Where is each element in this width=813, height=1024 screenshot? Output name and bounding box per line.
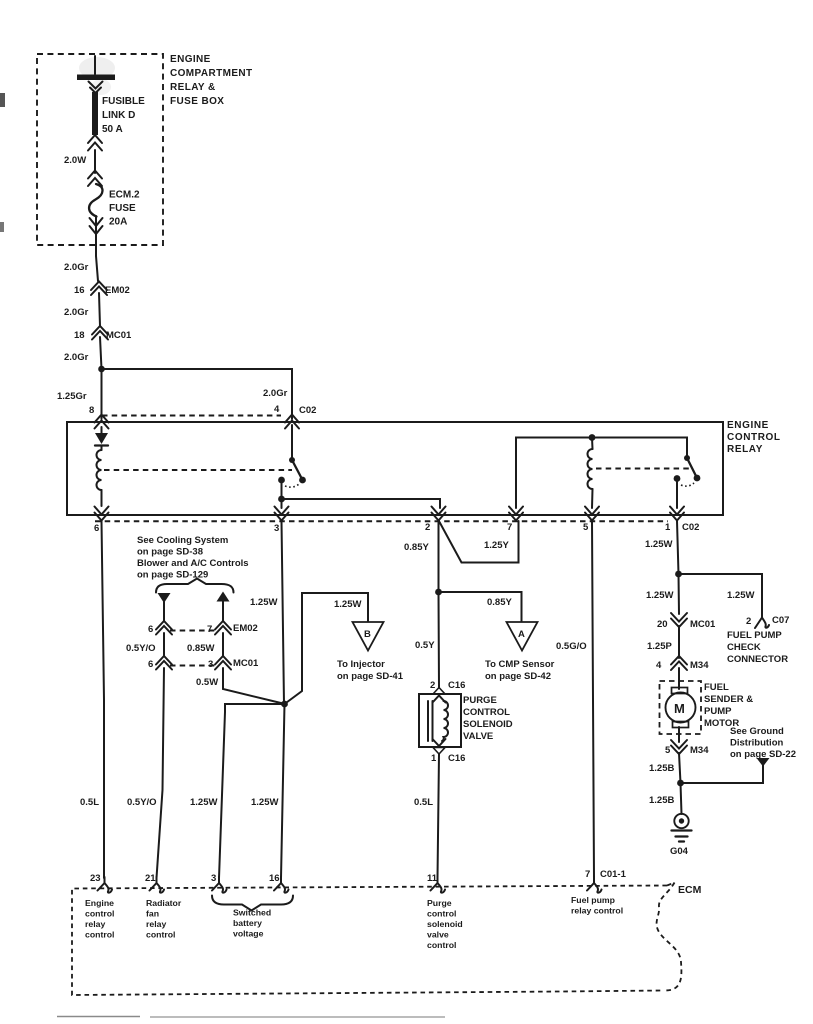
label 0.5W [196, 677, 218, 688]
label pin 1 C16 [431, 753, 437, 764]
motor M1 (circle with M) [666, 693, 696, 723]
svg-text:EM02: EM02 [105, 285, 130, 296]
label pin 16 [269, 873, 280, 884]
label 18 [74, 330, 85, 341]
svg-text:1.25P: 1.25P [647, 641, 672, 652]
label pin 11 [427, 873, 438, 884]
svg-text:control: control [85, 930, 114, 940]
svg-text:5: 5 [665, 745, 671, 756]
wire branch to CMP sensor [439, 592, 522, 621]
svg-text:23: 23 [90, 873, 101, 884]
label C02 (top) [299, 405, 316, 416]
right switch pivot [684, 455, 690, 461]
right switch moving contact [694, 475, 701, 482]
label 2.0Gr (mid) [64, 307, 89, 318]
svg-text:18: 18 [74, 330, 85, 341]
label C16 (top) [448, 680, 465, 691]
label 1.25P [647, 641, 672, 652]
svg-text:on page SD-41: on page SD-41 [337, 671, 404, 682]
note To CMP Sensor [485, 659, 555, 682]
wire relay pin 1 down (1.25W) [677, 521, 679, 574]
svg-text:SOLENOID: SOLENOID [463, 719, 513, 730]
connector 20 MC01 (in-line chevrons down) [671, 613, 687, 627]
junction node above relay [98, 366, 105, 373]
fuse ECM.2 20A (s-curve symbol) [89, 184, 102, 217]
svg-text:4: 4 [274, 404, 280, 415]
label 4 (M34) [656, 660, 662, 671]
svg-text:relay control: relay control [571, 906, 623, 916]
ECM pin 16 connector [274, 877, 289, 893]
wire relay pin 3 down to junction [282, 521, 285, 704]
svg-text:3: 3 [211, 873, 216, 884]
ECM pin 3 connector [212, 877, 227, 893]
svg-text:M: M [674, 701, 685, 716]
svg-text:See Cooling System: See Cooling System [137, 535, 228, 546]
svg-text:0.5Y: 0.5Y [415, 640, 435, 651]
svg-text:FUEL: FUEL [704, 682, 729, 693]
svg-text:B: B [364, 629, 371, 640]
svg-text:To CMP Sensor: To CMP Sensor [485, 659, 555, 670]
wire battery stub [94, 56, 96, 74]
svg-text:G04: G04 [670, 846, 689, 857]
wire fuse to box edge [95, 216, 97, 256]
svg-text:6: 6 [148, 659, 153, 670]
connector row C02 bottom (dashed) [95, 520, 668, 522]
label 0.85W [187, 643, 214, 654]
label 1.25W (check branch) [727, 590, 754, 601]
label G04 [670, 846, 689, 857]
linkage (dashed) left coil to left switch [104, 469, 292, 471]
label ECM.2 FUSE 20A [109, 190, 140, 228]
pin 3 connector chevrons [275, 507, 289, 521]
label PURGE CONTROL SOLENOID VALVE [463, 695, 513, 742]
svg-text:0.5L: 0.5L [414, 797, 433, 808]
wire MC01 to M34 (1.25P) [678, 626, 680, 658]
fusible link D (thick bar) [92, 92, 98, 135]
svg-text:2.0Gr: 2.0Gr [64, 352, 89, 363]
label 1.25B (lower) [649, 795, 674, 806]
label 6 (upper) [148, 624, 153, 635]
scan artifact bottom separator [57, 1016, 445, 1019]
right switch throw arc (dotted) [681, 483, 694, 486]
left switch pivot [289, 457, 295, 463]
label FUSIBLE LINK D 50 A [102, 96, 145, 135]
svg-text:1.25W: 1.25W [190, 797, 217, 808]
svg-text:CHECK: CHECK [727, 642, 761, 653]
svg-text:relay: relay [85, 919, 105, 929]
label 1.25W (injector wire) [334, 599, 361, 610]
svg-text:M34: M34 [690, 660, 709, 671]
label pin 8 [89, 405, 94, 416]
wire relay pin 5 to ECM pin 7 (0.5G/O) [592, 521, 594, 878]
svg-text:FUSE BOX: FUSE BOX [170, 96, 224, 107]
label C16 (bottom) [448, 753, 465, 764]
svg-text:7: 7 [507, 522, 512, 533]
wire engine control relay run (0.5L) [102, 521, 105, 878]
svg-text:0.5G/O: 0.5G/O [556, 641, 587, 652]
wire junction to pin 3 [281, 499, 283, 508]
svg-text:C16: C16 [448, 680, 465, 691]
ECM pin 21 connector [150, 877, 165, 893]
label Radiator fan relay control [146, 898, 182, 940]
pin 7 connector chevrons [509, 507, 523, 521]
wire segment to EM02 [96, 256, 98, 281]
brace switched battery pins [212, 896, 293, 911]
svg-text:6: 6 [94, 523, 99, 534]
svg-text:MC01: MC01 [690, 619, 716, 630]
svg-text:2: 2 [430, 680, 435, 691]
wire radiator stub mid [163, 633, 165, 656]
wire branch junction to pin 4 [102, 369, 293, 419]
pin 5 connector chevrons [585, 507, 599, 521]
label M34 (upper) [690, 660, 709, 671]
svg-text:2: 2 [746, 616, 751, 627]
label 2.0Gr (lower) [64, 352, 89, 363]
svg-text:Blower and A/C Controls: Blower and A/C Controls [137, 558, 249, 569]
svg-text:16: 16 [269, 873, 280, 884]
svg-text:0.5Y/O: 0.5Y/O [127, 797, 157, 808]
svg-text:relay: relay [146, 919, 166, 929]
svg-text:RELAY: RELAY [727, 444, 763, 455]
svg-text:Purge: Purge [427, 898, 452, 908]
connector C16 bottom (chevron + triangle) [433, 739, 446, 754]
label pin 3 (ECM) [211, 873, 216, 884]
wire branch junction to pin 3 ECM [219, 704, 285, 878]
label 0.5Y [415, 640, 435, 651]
note To Injector [337, 659, 404, 682]
label 0.5L (purge wire) [414, 797, 433, 808]
svg-text:M34: M34 [690, 745, 709, 756]
pin 6 connector chevrons [95, 507, 109, 521]
svg-text:control: control [146, 930, 175, 940]
junction node at left switch output [278, 496, 285, 503]
off-page triangle A [507, 622, 538, 651]
label M34 (lower) [690, 745, 709, 756]
label 16 [74, 285, 85, 296]
label ENGINE CONTROL RELAY [727, 420, 781, 455]
label EM02 [233, 623, 258, 634]
svg-text:0.85Y: 0.85Y [404, 542, 429, 553]
svg-text:CONNECTOR: CONNECTOR [727, 654, 788, 665]
wire segment to MC01 [99, 293, 100, 326]
svg-text:0.85W: 0.85W [187, 643, 214, 654]
label 1.25W (pin 1 wire) [645, 539, 672, 550]
label pin 7 C01-1 [585, 869, 627, 880]
svg-text:2.0Gr: 2.0Gr [64, 307, 89, 318]
label pin 6 [94, 523, 99, 534]
wire radiator fan control (0.5Y/O run) [157, 668, 165, 878]
svg-text:1: 1 [431, 753, 437, 764]
label 1.25W (pin 16 wire) [251, 797, 278, 808]
svg-text:1.25B: 1.25B [649, 795, 674, 806]
connector 4 M34 (in-line chevrons up) [671, 656, 687, 670]
ground G04 symbol [672, 814, 692, 842]
label 0.5Y/O (lower) [127, 797, 157, 808]
label 6 (lower) [148, 659, 153, 670]
ECM box (dashed enclosure with wavy right edge) [72, 883, 681, 996]
svg-text:COMPARTMENT: COMPARTMENT [170, 68, 253, 79]
svg-text:C16: C16 [448, 753, 465, 764]
svg-text:ECM.2: ECM.2 [109, 190, 140, 201]
svg-text:0.5Y/O: 0.5Y/O [126, 643, 156, 654]
relay coil (right) [588, 438, 593, 509]
diode inside relay [95, 427, 108, 446]
svg-text:PURGE: PURGE [463, 695, 497, 706]
svg-text:Distribution: Distribution [730, 738, 783, 749]
label pin 5 [583, 522, 589, 533]
label C07 [772, 615, 789, 626]
svg-text:MC01: MC01 [233, 658, 259, 669]
label FUEL PUMP CHECK CONNECTOR [727, 630, 788, 665]
svg-text:ENGINE: ENGINE [170, 54, 211, 65]
label 5 (M34) [665, 745, 671, 756]
svg-text:CONTROL: CONTROL [727, 432, 781, 443]
arrow to radiator fan (solid triangle down) [158, 593, 171, 603]
svg-text:2.0Gr: 2.0Gr [64, 262, 89, 273]
svg-text:0.5L: 0.5L [80, 797, 99, 808]
wire fixed contact to junction [281, 480, 283, 499]
label 1.25W (pin 3 ECM wire) [190, 797, 217, 808]
connector chevrons below fusible link [88, 135, 102, 151]
svg-text:Engine: Engine [85, 898, 114, 908]
label pin 3 [274, 523, 279, 534]
label 20 [657, 619, 668, 630]
ECM pin 11 connector [431, 877, 446, 893]
svg-text:C02: C02 [682, 522, 699, 533]
wire to injector branch [285, 593, 369, 704]
right switch fixed contact [674, 475, 681, 482]
svg-text:FUEL PUMP: FUEL PUMP [727, 630, 782, 641]
svg-text:C02: C02 [299, 405, 316, 416]
purge control solenoid valve box [419, 694, 461, 747]
svg-text:PUMP: PUMP [704, 706, 732, 717]
left switch moving contact [299, 477, 306, 484]
svg-text:8: 8 [89, 405, 94, 416]
svg-text:on page SD-22: on page SD-22 [730, 749, 796, 760]
dashed connector row EM02 [170, 630, 217, 632]
wire branch to check connector [679, 574, 763, 617]
scan smudge near battery bar [79, 57, 115, 95]
label 7 [207, 624, 212, 635]
junction node ground branch [677, 780, 684, 787]
label pin 7 [507, 522, 512, 533]
svg-text:SENDER &: SENDER & [704, 694, 753, 705]
wire 0.5W stub to junction [223, 668, 283, 704]
label 0.5L [80, 797, 99, 808]
svg-text:control: control [85, 909, 114, 919]
note See Cooling System references [137, 535, 249, 581]
connector chevrons below fuse [90, 218, 103, 234]
svg-text:A: A [518, 629, 525, 640]
right switch arm [687, 458, 697, 477]
wire motor to M34 lower [678, 727, 680, 742]
left switch throw arc (dotted) [285, 484, 299, 487]
label 3 [208, 659, 213, 670]
svg-text:7: 7 [585, 869, 590, 880]
connector 2 C07 (half connector) [755, 618, 769, 629]
svg-text:voltage: voltage [233, 929, 264, 939]
arrow from blower controls (solid triangle up) [217, 592, 230, 602]
label 0.5Y/O (upper) [126, 643, 156, 654]
label EM02 [105, 285, 130, 296]
svg-text:Fuel pump: Fuel pump [571, 895, 615, 905]
wire purge valve to ECM pin 11 [438, 754, 440, 878]
label MC01 [106, 330, 132, 341]
wire blower stub mid [222, 633, 224, 656]
svg-text:2: 2 [425, 522, 430, 533]
svg-text:20A: 20A [109, 217, 127, 228]
svg-text:4: 4 [656, 660, 662, 671]
off-page triangle B [353, 622, 384, 651]
connector 6 (upper, radiator stub) [156, 621, 172, 635]
wire blower stub [222, 601, 224, 621]
svg-text:0.85Y: 0.85Y [487, 597, 512, 608]
fuel sender & pump motor (dashed enclosure) [660, 681, 702, 734]
ECM pin 7 connector [587, 877, 602, 893]
wire 0.5Y to purge valve [438, 592, 441, 688]
label 2.0Gr (branch) [263, 388, 288, 399]
svg-text:20: 20 [657, 619, 668, 630]
svg-text:fan: fan [146, 909, 159, 919]
label Fuel pump relay control [571, 895, 623, 916]
svg-text:See Ground: See Ground [730, 726, 784, 737]
left switch arm [292, 460, 302, 479]
relay coil (left) [97, 446, 102, 507]
svg-text:6: 6 [148, 624, 153, 635]
svg-text:50 A: 50 A [102, 124, 123, 135]
connector 16 EM02 (in-line chevrons) [91, 282, 107, 296]
svg-text:CONTROL: CONTROL [463, 707, 510, 718]
label MC01 [233, 658, 259, 669]
label Purge control solenoid valve control [427, 898, 463, 950]
svg-text:Switched: Switched [233, 908, 271, 918]
svg-text:ECM: ECM [678, 884, 702, 896]
linkage (dashed) right coil to right switch [596, 468, 690, 470]
svg-text:16: 16 [74, 285, 85, 296]
label 1.25W (pin 3 wire) [250, 597, 277, 608]
label pin 1 [665, 522, 671, 533]
connector chevrons above fuse [88, 171, 102, 187]
wire 1.25Y jog pin2 area to pin 7 [440, 521, 519, 563]
svg-text:To Injector: To Injector [337, 659, 385, 670]
label 0.85Y (CMP branch) [487, 597, 512, 608]
inner feed rectangle (right relay section) [516, 438, 687, 509]
wire M34 to motor [678, 668, 680, 689]
svg-text:3: 3 [274, 523, 279, 534]
wire junction to pin 8 [101, 369, 103, 419]
connector 18 MC01 (in-line chevrons) [92, 326, 108, 340]
svg-text:2.0W: 2.0W [64, 155, 86, 166]
wire pin 4 to left switch pivot [291, 425, 293, 459]
svg-text:C07: C07 [772, 615, 789, 626]
svg-text:1.25W: 1.25W [334, 599, 361, 610]
left switch fixed contact [278, 477, 285, 484]
svg-text:VALVE: VALVE [463, 731, 493, 742]
scan artifact left edge ticks [0, 93, 5, 232]
wire segment to junction [100, 337, 102, 369]
svg-text:11: 11 [427, 873, 438, 884]
svg-text:2.0Gr: 2.0Gr [263, 388, 288, 399]
svg-text:EM02: EM02 [233, 623, 258, 634]
svg-text:1.25W: 1.25W [727, 590, 754, 601]
svg-text:1: 1 [665, 522, 671, 533]
connector row C02 top (dashed) [102, 415, 281, 417]
wire junction to pin 2 [282, 499, 441, 508]
note See Ground Distribution [730, 726, 796, 760]
junction node switched battery [281, 701, 288, 708]
wire junction to MC01 connector [678, 574, 681, 614]
label 1.25W (lower) [646, 590, 673, 601]
svg-text:battery: battery [233, 918, 262, 928]
svg-text:solenoid: solenoid [427, 919, 463, 929]
wire fixed contact to pin 1 [676, 479, 678, 509]
engine compartment relay & fuse box (dashed enclosure) [37, 54, 163, 245]
label MC01 (fuel pump) [690, 619, 716, 630]
solenoid core lines [428, 701, 433, 741]
label pin 23 [90, 873, 101, 884]
svg-text:1.25Gr: 1.25Gr [57, 391, 87, 402]
label 1.25Gr [57, 391, 87, 402]
svg-text:MC01: MC01 [106, 330, 132, 341]
svg-text:control: control [427, 909, 456, 919]
wire M34 to ground junction (1.25B) [679, 753, 681, 783]
svg-text:C01-1: C01-1 [600, 869, 627, 880]
svg-text:1.25W: 1.25W [250, 597, 277, 608]
svg-text:FUSE: FUSE [109, 203, 136, 214]
ECM pin 23 connector [98, 877, 113, 893]
wire relay pin 2 down (0.85Y) [438, 521, 440, 592]
svg-text:ENGINE: ENGINE [727, 420, 769, 431]
pin 8 connector chevrons [95, 415, 109, 429]
svg-text:1.25W: 1.25W [646, 590, 673, 601]
label Switched battery voltage [233, 908, 271, 939]
pin 4 connector chevrons [285, 415, 299, 429]
brace over cooling stubs [156, 579, 234, 593]
label 2.0W [64, 155, 86, 166]
solenoid coil [442, 701, 448, 741]
label pin 4 [274, 404, 280, 415]
label pin 21 [145, 873, 156, 884]
engine control relay box [67, 422, 723, 515]
connector chevrons below battery bar [89, 82, 103, 94]
svg-text:RELAY &: RELAY & [170, 82, 216, 93]
label pin 2 C16 [430, 680, 435, 691]
connector 7 EM02 (blower stub) [215, 621, 231, 635]
svg-text:1.25W: 1.25W [251, 797, 278, 808]
label FUEL SENDER & PUMP MOTOR [704, 682, 753, 729]
svg-text:1.25W: 1.25W [645, 539, 672, 550]
svg-text:valve: valve [427, 930, 449, 940]
svg-text:FUSIBLE: FUSIBLE [102, 96, 145, 107]
svg-text:Radiator: Radiator [146, 898, 182, 908]
svg-text:21: 21 [145, 873, 156, 884]
label Engine control relay control [85, 898, 114, 940]
label 1.25B (upper) [649, 763, 674, 774]
label ECM [678, 884, 702, 896]
svg-text:on page SD-38: on page SD-38 [137, 547, 203, 558]
pin 2 connector chevrons [432, 507, 446, 521]
battery feed bar [77, 75, 115, 81]
wire junction to pin 16 [281, 704, 285, 878]
svg-text:control: control [427, 940, 456, 950]
pin 1 connector chevrons [670, 507, 684, 521]
label 1.25Y [484, 540, 509, 551]
svg-text:1.25Y: 1.25Y [484, 540, 509, 551]
label 2.0Gr (upper) [64, 262, 89, 273]
wire radiator fan stub [163, 602, 165, 621]
wire branch to ground distribution [681, 764, 764, 783]
junction node CMP branch [435, 589, 442, 596]
